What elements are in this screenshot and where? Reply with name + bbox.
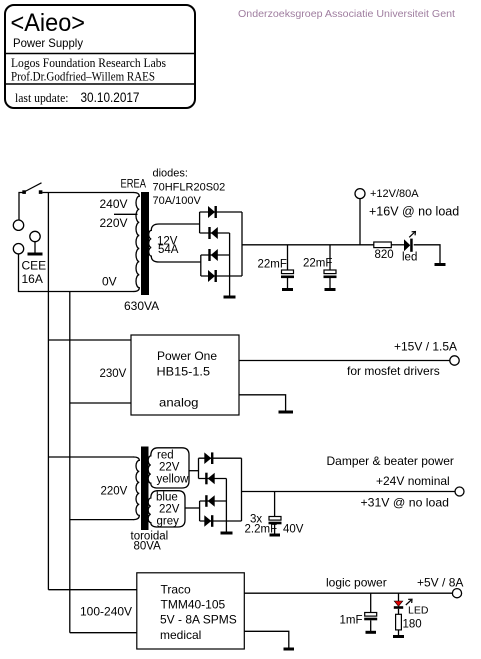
svg-text:logic power: logic power	[326, 576, 387, 590]
svg-text:1mF: 1mF	[340, 615, 363, 627]
wire +5V output	[244, 592, 452, 594]
svg-text:820: 820	[375, 249, 394, 261]
svg-text:5V - 8A SPMS: 5V - 8A SPMS	[160, 613, 237, 627]
svg-text:EREA: EREA	[121, 179, 147, 191]
CEE connector terminal N	[13, 244, 23, 254]
wire main 12V output	[242, 244, 374, 246]
svg-text:16A: 16A	[22, 272, 43, 286]
svg-text:630VA: 630VA	[124, 299, 159, 313]
svg-text:+15V / 1.5A: +15V / 1.5A	[394, 340, 457, 354]
svg-text:+5V / 8A: +5V / 8A	[417, 576, 463, 590]
svg-text:230V: 230V	[100, 368, 127, 380]
diode D8	[204, 515, 213, 527]
wire bridge minus vertical	[229, 233, 231, 296]
svg-text:180: 180	[403, 619, 422, 631]
ground bridge2	[221, 532, 233, 535]
diode D2	[208, 227, 218, 239]
wire bridge2 AC2 vertical	[199, 501, 201, 521]
capacitor C2 22mF	[324, 245, 337, 290]
svg-text:LED: LED	[408, 605, 429, 617]
wire T2 secondary A lead	[189, 470, 199, 472]
svg-text:blue: blue	[156, 492, 178, 504]
transformer T1 secondary winding 12V	[149, 224, 201, 262]
wire led to resistor	[398, 609, 400, 615]
CEE connector terminal L	[13, 220, 23, 230]
diode D6	[205, 473, 215, 485]
transformer T1 core	[141, 192, 149, 295]
svg-text:220V: 220V	[101, 486, 128, 498]
svg-text:grey: grey	[157, 516, 180, 528]
wire D5 horizontal	[199, 457, 242, 459]
transformer T2 primary winding	[134, 457, 140, 520]
transformer T2 secondary winding A	[148, 448, 189, 488]
bus neutral vertical	[69, 292, 71, 633]
diode D3	[208, 249, 218, 261]
svg-text:+12V/80A: +12V/80A	[370, 188, 419, 200]
wire PE to ground	[34, 242, 36, 253]
svg-text:led: led	[402, 252, 417, 264]
svg-text:CEE: CEE	[22, 259, 47, 273]
wire bridge AC1 vertical	[199, 212, 201, 233]
wire T2 secondary B lead	[185, 507, 200, 509]
wire D2 horizontal	[200, 232, 230, 234]
transformer T1 primary winding	[134, 193, 140, 292]
capacitor C4 1mF	[364, 593, 377, 632]
capacitor C1 22mF	[281, 245, 294, 290]
svg-text:22mF: 22mF	[303, 258, 332, 270]
svg-text:40V: 40V	[283, 524, 304, 536]
ground led1	[435, 263, 446, 266]
wire bridge plus vertical	[241, 212, 243, 276]
wire toroidal bottom input	[70, 519, 134, 521]
wire N terminal to 0V line	[19, 254, 135, 292]
svg-text:240V: 240V	[100, 197, 128, 211]
svg-text:diodes:: diodes:	[153, 168, 188, 180]
svg-text:+16V @ no load: +16V @ no load	[369, 205, 459, 219]
ground bridge1	[224, 296, 236, 299]
switch S1	[22, 183, 42, 194]
wire switch to CEE live terminal	[19, 193, 24, 221]
wire Traco bottom input	[70, 632, 137, 634]
svg-text:red: red	[157, 450, 174, 462]
terminal +12V	[355, 189, 365, 199]
transformer T2 core	[141, 447, 149, 531]
transformer T2 secondary winding B	[148, 491, 185, 527]
svg-text:Damper & beater power: Damper & beater power	[327, 454, 454, 468]
capacitor C3 2.2mF	[269, 492, 282, 536]
wire led to ground	[414, 245, 440, 263]
wire Traco top input	[48, 589, 136, 591]
wire +15V output	[239, 360, 450, 362]
CEE connector terminal PE	[30, 231, 40, 241]
ground U2	[284, 648, 295, 651]
svg-text:Onderzoeksgroep Associatie Uni: Onderzoeksgroep Associatie Universiteit …	[238, 8, 455, 20]
resistor R1 820	[374, 242, 392, 248]
svg-text:TMM40-105: TMM40-105	[161, 598, 226, 612]
wire D6 horizontal	[199, 478, 227, 480]
wire resistor to led	[391, 244, 404, 246]
wire terminal branch	[359, 199, 361, 245]
ground U1	[279, 411, 294, 414]
ground led2	[393, 635, 404, 638]
led D9	[404, 232, 415, 252]
svg-text:for mosfet drivers: for mosfet drivers	[347, 364, 440, 378]
svg-text:Power One: Power One	[157, 349, 217, 363]
svg-text:70HFLR20S02: 70HFLR20S02	[153, 182, 226, 194]
terminal +15V	[450, 356, 459, 365]
wire bridge2 plus vertical	[241, 458, 243, 521]
svg-text:22V: 22V	[159, 504, 180, 516]
svg-text:medical: medical	[160, 628, 201, 642]
title block frame	[5, 5, 195, 108]
wire bridge AC2 vertical	[200, 255, 202, 276]
module U2 Traco	[137, 573, 245, 649]
wire D8 horizontal	[200, 520, 242, 522]
terminal +5V	[452, 589, 461, 598]
svg-text:Prof.Dr.Godfried–Willem RAES: Prof.Dr.Godfried–Willem RAES	[11, 69, 155, 84]
wire 24V output	[242, 491, 456, 493]
transformer T1 220V tap	[114, 213, 138, 215]
resistor R2 180	[396, 614, 402, 630]
svg-text:Traco: Traco	[161, 583, 192, 597]
wire bridge2 AC1 vertical	[198, 458, 200, 478]
diode D4	[208, 270, 217, 282]
svg-text:last update:: last update:	[15, 90, 69, 105]
svg-text:30.10.2017: 30.10.2017	[81, 89, 140, 105]
svg-text:22mF: 22mF	[258, 259, 287, 271]
diode D7	[205, 495, 215, 507]
svg-text:<Aieo>: <Aieo>	[11, 9, 86, 37]
svg-text:0V: 0V	[102, 275, 117, 289]
wire U1 ground	[239, 395, 286, 411]
diode D1	[208, 206, 217, 218]
svg-text:Power Supply: Power Supply	[13, 36, 83, 50]
svg-text:220V: 220V	[100, 216, 128, 230]
wire toroidal top input	[48, 456, 134, 458]
wire D7 horizontal	[200, 500, 227, 502]
ground PE	[28, 253, 43, 256]
wire 230V bottom input	[70, 402, 131, 404]
svg-text:+31V @ no load: +31V @ no load	[361, 496, 450, 510]
svg-text:100-240V: 100-240V	[80, 605, 132, 619]
svg-text:22V: 22V	[159, 462, 180, 474]
terminal +24V	[455, 487, 464, 496]
svg-text:2.2mF: 2.2mF	[245, 524, 278, 536]
svg-text:HB15-1.5: HB15-1.5	[157, 365, 211, 379]
bus live vertical	[47, 193, 49, 590]
module U1 Power One	[131, 335, 239, 415]
svg-text:+24V nominal: +24V nominal	[376, 474, 450, 488]
svg-text:80VA: 80VA	[134, 541, 162, 553]
wire D4 horizontal	[201, 275, 242, 277]
wire switch to transformer 240V	[42, 192, 134, 194]
wire 230V top input	[48, 339, 131, 341]
wire D3 horizontal	[201, 254, 230, 256]
led D10 red	[394, 593, 412, 609]
diode D5	[204, 452, 213, 464]
svg-text:analog: analog	[159, 396, 199, 410]
wire D1 horizontal	[200, 211, 242, 213]
wire resistor to ground	[398, 630, 400, 635]
svg-text:54A: 54A	[158, 244, 179, 256]
wire U2 ground	[244, 631, 288, 647]
wire bridge2 minus vertical	[225, 479, 227, 532]
svg-text:70A/100V: 70A/100V	[153, 195, 202, 207]
svg-text:yellow: yellow	[157, 474, 190, 486]
